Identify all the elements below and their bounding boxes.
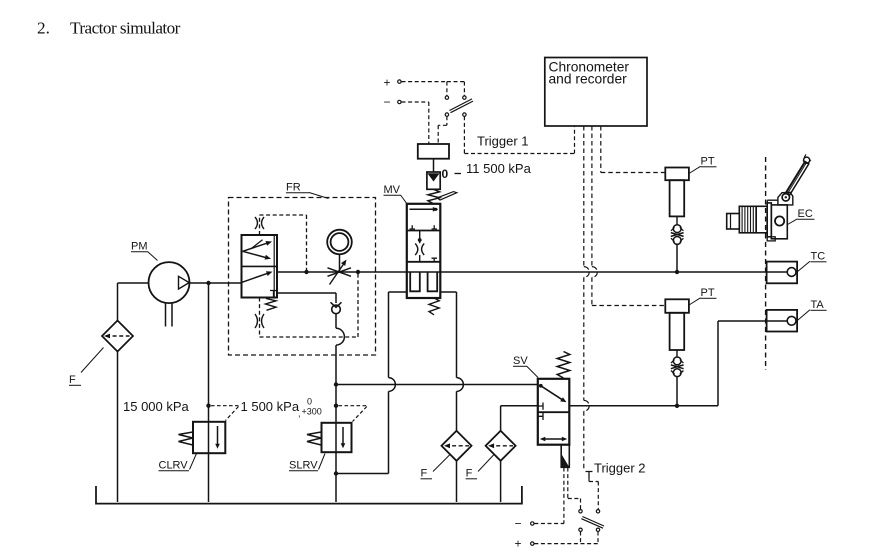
trigger1 switch to solenoid dashed [438, 116, 447, 144]
label PT upper [689, 156, 717, 174]
flow control valve [328, 260, 352, 285]
svg-text:Tractor simulator: Tractor simulator [70, 19, 181, 38]
wire CLRV branch [208, 283, 210, 502]
junction pump outlet to CLRV branch [206, 281, 210, 285]
wire pump inlet [118, 283, 149, 502]
svg-text:−: − [515, 517, 522, 531]
regulator lower cell arrow [242, 271, 273, 282]
label F pump filter [69, 348, 104, 387]
svg-text:CLRV: CLRV [159, 460, 189, 472]
junction lower PT tap on brake line [675, 404, 679, 408]
manual lever flag [437, 192, 457, 200]
pump PM [149, 262, 190, 326]
tank rail [96, 486, 522, 504]
svg-text:F: F [69, 374, 76, 386]
coupling TC [767, 262, 798, 284]
wire filter2 to SV [501, 406, 538, 502]
label F2 [466, 455, 494, 480]
svg-text:SV: SV [513, 355, 528, 367]
SLRV relief valve [307, 423, 352, 452]
trigger2 switch contacts [579, 510, 600, 532]
trigger1 plus dashed wires [402, 82, 465, 96]
regulator bottom pilot restrictor [255, 314, 264, 328]
regulator tank port T [270, 291, 277, 298]
filter F pump suction [102, 321, 133, 352]
trigger2 minus terminal [515, 517, 535, 531]
label SV [513, 355, 538, 378]
wire MV right leg [440, 292, 463, 502]
SV solenoid [561, 445, 569, 468]
EC lever [786, 154, 811, 194]
junction upper PT tap on main line [675, 270, 679, 274]
coupling TA [767, 310, 798, 332]
SV lower cell arrow [540, 437, 568, 441]
trigger1 switch contacts [445, 96, 466, 116]
wire main supply line [277, 271, 787, 273]
regulator bottom pilot dashed line [260, 272, 359, 337]
svg-text:2.: 2. [37, 19, 50, 38]
label TC [797, 251, 826, 272]
trigger2 plus dashed wires [534, 532, 598, 544]
svg-text:F: F [466, 468, 473, 480]
SV diagonal path [539, 384, 567, 402]
wire SLRV branch [335, 345, 337, 502]
MV cell1 arrow [410, 207, 439, 212]
regulator top pilot dashed line [260, 215, 307, 272]
label SLRV [289, 454, 325, 472]
label PT lower [689, 287, 717, 305]
title [37, 19, 181, 38]
trigger2 plus terminal [515, 537, 535, 551]
trigger1 minus dashed wire [402, 102, 429, 144]
label FR [286, 182, 329, 199]
junction secondary rail tee [334, 382, 338, 386]
chronometer dashed line 3 [592, 126, 665, 306]
svg-text:+300: +300 [302, 407, 322, 417]
label Trigger 2 [594, 461, 646, 476]
label F1 [421, 455, 451, 480]
wire MV left leg [336, 292, 407, 474]
wire gauge stem [339, 255, 341, 273]
FR dashed enclosure [229, 198, 376, 356]
gauge [327, 230, 352, 255]
trigger1 line to chronometer dashed [464, 116, 574, 153]
label EC [788, 208, 815, 225]
reducer spring [428, 189, 440, 204]
label TA [797, 299, 826, 321]
svg-text:0: 0 [442, 167, 449, 181]
CLRV relief valve [179, 422, 226, 453]
MV cell1 ports T [410, 225, 438, 229]
svg-text:Trigger 1: Trigger 1 [477, 133, 529, 148]
svg-text:+: + [515, 537, 522, 551]
svg-text:EC: EC [798, 208, 813, 220]
svg-text:1 500 kPa: 1 500 kPa [241, 399, 300, 414]
SV valve body [538, 379, 570, 445]
filter F1 [442, 431, 472, 461]
EC device [727, 192, 793, 241]
upper PT shutoff symbol [671, 225, 684, 245]
svg-text:PM: PM [131, 241, 148, 253]
wire secondary rail [336, 384, 538, 386]
SV return spring [557, 352, 570, 379]
svg-text:FR: FR [286, 182, 301, 194]
MV cell3 brackets [410, 272, 437, 291]
filter F2 [486, 431, 516, 461]
svg-text:0: 0 [307, 397, 312, 407]
node MV cell1 arrow tip [434, 208, 437, 211]
boundary dashed line [765, 157, 767, 370]
svg-text:and recorder: and recorder [549, 72, 628, 87]
svg-text:+: + [384, 76, 391, 90]
regulator upper cell arrows [243, 240, 272, 260]
wire SLRV branch hop over pilot line [336, 328, 344, 345]
label Trigger 1 [477, 133, 529, 148]
wire regulator second outlet [277, 293, 336, 328]
svg-text:F: F [421, 468, 428, 480]
chronometer and recorder box [545, 58, 647, 127]
label CLRV [159, 454, 197, 472]
junction SLRV pilot tap [334, 404, 338, 408]
svg-text:MV: MV [384, 184, 401, 196]
pilot solenoid block [418, 144, 449, 172]
regulator top pilot restrictor [255, 217, 264, 229]
junction regulator top pilot tap [304, 270, 308, 274]
svg-text:TC: TC [811, 251, 826, 263]
svg-text:15 000 kPa: 15 000 kPa [123, 399, 190, 414]
trigger1 minus terminal [384, 95, 402, 109]
svg-text:Trigger 2: Trigger 2 [594, 461, 646, 476]
lower PT shutoff symbol [671, 357, 684, 377]
label 15000 kPa [123, 399, 190, 414]
junction CLRV pilot tap [206, 404, 210, 408]
chronometer dashed line 2 [584, 126, 589, 469]
MV cell2 restrictor [415, 231, 437, 262]
svg-text:−: − [384, 95, 391, 109]
svg-text:PT: PT [701, 287, 715, 299]
label 1500 kPa tolerance [241, 397, 322, 419]
label PM [131, 241, 158, 261]
junction SLRV outlet tee [334, 471, 338, 475]
trigger2 minus dashed wire [534, 523, 564, 525]
MV valve body [407, 204, 441, 298]
dash between 0 and 11500 [455, 173, 462, 175]
svg-text:11 500 kPa: 11 500 kPa [466, 161, 532, 176]
label MV [384, 184, 408, 204]
MV return spring [429, 298, 439, 315]
SV blocked ports T [538, 403, 543, 421]
junction regulator bottom pilot tap [356, 270, 360, 274]
SLRV pilot dashed [339, 406, 367, 422]
svg-text:PT: PT [701, 156, 715, 168]
lower PT transducer [665, 299, 689, 357]
chronometer dashed line 4 [601, 126, 666, 173]
regulator spring [266, 299, 277, 311]
svg-text:SLRV: SLRV [289, 460, 318, 472]
regulator valve body [242, 235, 278, 298]
wire brake line to TA [569, 321, 787, 406]
label 0 - 11500 kPa [442, 161, 532, 181]
svg-text:,: , [298, 409, 301, 419]
trigger1 switch bar [450, 99, 474, 113]
wire pump outlet [190, 282, 242, 284]
trigger1 plus terminal [384, 76, 402, 90]
check valve FR [331, 302, 342, 313]
trigger2 switch bar [581, 517, 604, 529]
svg-text:TA: TA [811, 299, 825, 311]
upper PT transducer [665, 168, 689, 225]
pressure reducer [427, 172, 440, 189]
CLRV pilot dashed [211, 406, 239, 421]
trigger2 solenoid dashed wires [564, 468, 598, 524]
trigger2 T mark [586, 472, 593, 479]
wire upper PT drop [676, 244, 678, 272]
wire lower PT drop [676, 377, 678, 406]
